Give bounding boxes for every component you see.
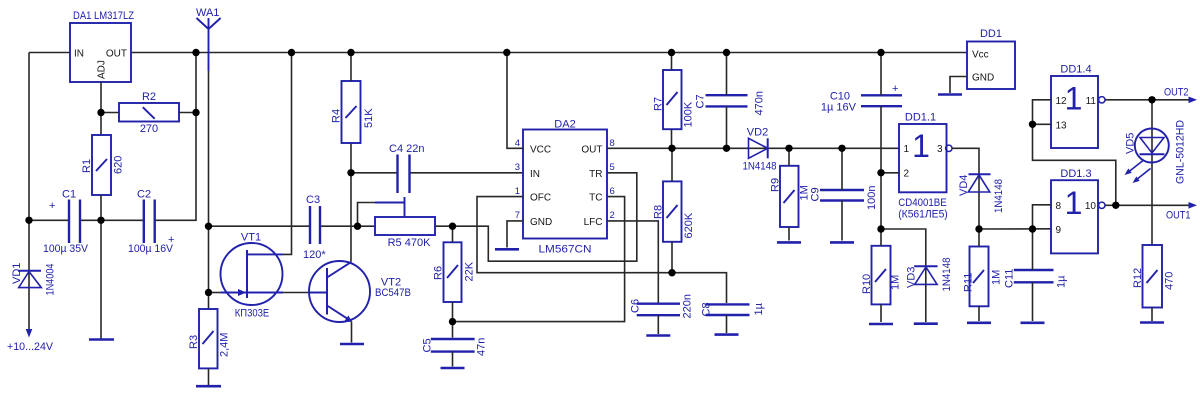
svg-text:1M: 1M [890, 275, 902, 290]
junction (452.5,321.6) [449, 318, 456, 325]
wire R3 bottom [208, 368, 210, 385]
svg-text:DA2: DA2 [554, 119, 575, 131]
node OUT1 arrow [1189, 202, 1198, 209]
regulator DA1 LM317LZ [70, 10, 134, 82]
svg-text:OUT: OUT [106, 49, 127, 60]
transistor VT1 KP303E jfet [221, 232, 284, 320]
svg-text:620: 620 [113, 156, 125, 174]
svg-text:51K: 51K [363, 108, 375, 128]
junction (979,229) [975, 225, 982, 232]
svg-text:BC547В: BC547В [375, 287, 411, 299]
led VD5 GNL-5012HD [1125, 120, 1187, 184]
wire C9 leads [841, 148, 843, 240]
svg-text:100K: 100K [683, 101, 695, 127]
wire C11 leads [1032, 229, 1034, 321]
wire top supply rail [131, 52, 967, 54]
wire DA2 OFC path [477, 197, 727, 303]
capacitor C1 100u 35V [43, 189, 89, 256]
svg-text:C6: C6 [630, 299, 642, 313]
wire DD1.4 out OUT2 [1105, 99, 1195, 101]
svg-text:TC: TC [589, 193, 602, 204]
svg-text:C9: C9 [810, 187, 822, 201]
wire C3 row y=226 [209, 225, 376, 227]
wire R7 leads [671, 53, 673, 149]
svg-text:13: 13 [1056, 121, 1068, 132]
ground under DA2 GND [495, 248, 519, 251]
svg-text:C7: C7 [695, 94, 707, 108]
resistor R8 620K [653, 181, 696, 241]
wire C6 bottom [657, 315, 659, 334]
svg-text:R6: R6 [433, 266, 445, 280]
wire C1 C2 row y=220 [29, 219, 144, 221]
svg-text:270: 270 [140, 123, 158, 135]
svg-text:R11: R11 [963, 273, 975, 292]
wire DA1 IN lead [29, 52, 70, 54]
wire VT2 emitter to ground [351, 322, 353, 343]
junction (1115.8,205.3) [1112, 202, 1119, 209]
junction (506.8,52.5) [503, 49, 510, 56]
junction (196,52.5) [192, 49, 199, 56]
capacitor C8 1u [701, 302, 766, 316]
svg-text:1µ: 1µ [753, 302, 765, 315]
wire R6 top stub [452, 226, 454, 242]
svg-text:R3: R3 [188, 335, 200, 349]
svg-text:R4: R4 [331, 109, 343, 123]
diode VD4 1N4148 [958, 174, 1005, 213]
wire R8 leads [671, 148, 673, 272]
svg-text:470n: 470n [754, 91, 766, 115]
svg-text:OUT2: OUT2 [1164, 87, 1189, 99]
resistor R7 100K [653, 70, 695, 129]
svg-text:OUT: OUT [581, 144, 602, 155]
svg-text:R7: R7 [653, 97, 665, 111]
svg-text:1M: 1M [991, 270, 1003, 285]
wire R12 bottom [1151, 308, 1153, 322]
svg-text:3: 3 [937, 144, 943, 155]
svg-text:C5: C5 [422, 338, 434, 352]
resistor R3 2,4M [188, 309, 231, 368]
junction (29,220.3) [25, 217, 32, 224]
junction (208.5,226.2) [205, 223, 212, 230]
svg-text:C2: C2 [137, 189, 151, 201]
wire antenna drop x=208.5 [208, 71, 210, 309]
svg-text:R5 470K: R5 470K [388, 237, 431, 249]
capacitor C10 1u 16V [821, 83, 902, 114]
svg-text:1µ: 1µ [1056, 275, 1068, 288]
svg-text:1: 1 [1065, 81, 1083, 117]
svg-text:+: + [49, 200, 55, 212]
svg-text:12: 12 [1056, 96, 1068, 107]
wire DD1.3 pin8 loop [1033, 205, 1052, 229]
svg-text:11: 11 [1086, 96, 1097, 107]
svg-text:WA1: WA1 [196, 7, 219, 19]
ground under VT2 [340, 343, 364, 346]
junction (351,172.8) [347, 169, 354, 176]
svg-text:120*: 120* [303, 249, 326, 261]
svg-text:4: 4 [515, 138, 520, 149]
svg-text:C3: C3 [306, 194, 320, 206]
wire VT1 source to VT2 base [283, 292, 309, 294]
svg-text:8: 8 [1056, 201, 1062, 212]
wire DA2 LFC to C6 [607, 221, 658, 303]
wire R11 leads [978, 229, 980, 321]
wire DD1 GND lead [950, 77, 967, 94]
svg-text:VD1: VD1 [11, 263, 23, 284]
wire R9 leads [788, 148, 790, 240]
capacitor C5 47n [422, 338, 488, 356]
svg-text:6: 6 [610, 186, 615, 197]
svg-text:DD1.4: DD1.4 [1060, 64, 1091, 76]
junction (1032.5,124.3) [1029, 121, 1036, 128]
gate DD1.4 [1051, 64, 1105, 149]
wire DA2 VCC lead to rail [507, 53, 523, 149]
svg-text:R9: R9 [770, 178, 782, 192]
svg-text:5: 5 [610, 162, 615, 173]
svg-text:DA1 LM317LZ: DA1 LM317LZ [73, 10, 134, 22]
ground under DD1 [938, 93, 962, 96]
svg-text:1: 1 [912, 128, 930, 164]
svg-text:1: 1 [515, 186, 520, 197]
svg-text:IN: IN [530, 169, 540, 180]
junction (671.5,52.5) [668, 49, 675, 56]
svg-text:10: 10 [1085, 201, 1097, 212]
gate DD1.3 [1051, 168, 1105, 253]
junction (672,148.3) [668, 145, 675, 152]
wire input riser x=29 [28, 53, 30, 334]
resistor R5 470K trimmer [375, 197, 435, 249]
wire R4 top to rail [350, 53, 352, 82]
wire LED branch x=1152 [1151, 100, 1153, 245]
svg-text:C11: C11 [1004, 269, 1016, 288]
svg-text:(К561ЛЕ5): (К561ЛЕ5) [898, 209, 948, 221]
ic DD1 power box [967, 28, 1015, 89]
wire DD1.4 pin13 lead [1033, 123, 1052, 125]
svg-text:R2: R2 [142, 91, 156, 103]
svg-text:IN: IN [74, 49, 84, 60]
svg-text:C4 22n: C4 22n [389, 143, 424, 155]
svg-text:1: 1 [904, 144, 910, 155]
junction (881,172.8) [877, 169, 884, 176]
capacitor C2 100u 16V [128, 189, 174, 256]
resistor R6 22K [433, 242, 476, 302]
ground under C6 [646, 334, 670, 337]
junction (881,52.5) [877, 49, 884, 56]
svg-text:GND: GND [530, 217, 552, 228]
junction (101,220.3) [97, 217, 104, 224]
wire C5 bottom [452, 352, 454, 367]
junction (881,229) [877, 225, 884, 232]
svg-text:R8: R8 [653, 205, 665, 219]
node input arrow [26, 329, 33, 338]
ground under R10 [869, 323, 893, 326]
capacitor C11 1u [1004, 269, 1068, 288]
svg-text:R1: R1 [81, 159, 93, 173]
resistor R4 51K [331, 81, 376, 143]
junction (1152,99.8) [1148, 96, 1155, 103]
wire TC return y=321.6 [453, 197, 625, 322]
diode VD3 1N4148 [906, 258, 954, 292]
diode VD1 1N4004 [11, 263, 57, 296]
wire ADJ drop x=101 [100, 82, 102, 135]
junction (291.5,52.5) [288, 49, 295, 56]
svg-text:C8: C8 [701, 302, 713, 316]
svg-text:VD4: VD4 [958, 175, 970, 196]
wire DD1.1 pin2 lead [881, 172, 899, 174]
junction (672,272.7) [668, 269, 675, 276]
svg-text:LFC: LFC [584, 217, 603, 228]
junction (842,148.3) [838, 145, 845, 152]
ground under R12 [1140, 321, 1164, 324]
ground under R9 [777, 241, 801, 244]
svg-text:OUT1: OUT1 [1166, 210, 1191, 222]
wire C10 leads [880, 53, 882, 173]
ground under R3 [196, 385, 221, 388]
svg-text:DD1: DD1 [980, 28, 1002, 40]
svg-text:КП303Е: КП303Е [235, 308, 270, 320]
junction (351,52.5) [347, 49, 354, 56]
resistor R1 620 [81, 135, 125, 195]
wire VT2 collector riser x=351 [350, 143, 352, 262]
svg-text:100n: 100n [866, 186, 878, 210]
wire DD1.1 out to VD4 [952, 148, 979, 229]
capacitor C3 120* [303, 194, 326, 261]
junction (452.5,226.2) [449, 223, 456, 230]
svg-text:R10: R10 [861, 274, 873, 294]
diode VD2 1N4148 [743, 127, 777, 173]
svg-text:47n: 47n [476, 338, 488, 356]
wire R1 bottom to ground [100, 195, 102, 339]
capacitor C9 100n [810, 186, 879, 210]
wire DD1.3 out OUT1 [1105, 204, 1195, 206]
svg-text:VD2: VD2 [747, 127, 768, 139]
transistor VT2 BC547B [309, 261, 411, 322]
svg-text:GND: GND [972, 73, 994, 84]
svg-text:1µ 16V: 1µ 16V [821, 102, 857, 114]
wire DA2 GND lead [507, 221, 523, 248]
svg-text:2: 2 [610, 210, 615, 221]
svg-text:Vcc: Vcc [972, 50, 989, 61]
svg-text:22K: 22K [464, 261, 476, 281]
capacitor C4 22n [389, 143, 424, 193]
wire R5 right lead to TR [435, 173, 637, 261]
svg-text:OFC: OFC [530, 193, 551, 204]
capacitor C6 220n [630, 294, 694, 318]
wire pin2 riser to R10 node [880, 173, 882, 229]
svg-text:1: 1 [1065, 185, 1083, 221]
ground under R1 [89, 338, 114, 341]
gate DD1.1 [898, 112, 952, 221]
wire VT1 gate lead [209, 292, 221, 294]
junction (1032.5,229) [1029, 225, 1036, 232]
svg-text:TR: TR [589, 169, 602, 180]
resistor R2 270 [119, 91, 179, 135]
wire pin2 net to VD3 [881, 229, 926, 322]
svg-text:620K: 620K [683, 212, 695, 238]
svg-text:7: 7 [515, 210, 520, 221]
ground under C5 [441, 367, 465, 370]
capacitor C7 470n [695, 91, 766, 115]
wire VT1 drain riser x=291.5 [283, 53, 292, 255]
wire R6 bottom stub [452, 302, 454, 338]
wire riser x=196 rail to C2 [155, 53, 196, 221]
svg-text:CD4001BE: CD4001BE [898, 197, 947, 209]
svg-text:100µ 35V: 100µ 35V [43, 243, 89, 255]
ground under C9 [830, 241, 854, 244]
junction (357.5,226.2) [354, 223, 361, 230]
svg-text:3: 3 [515, 162, 520, 173]
svg-text:1N4148: 1N4148 [743, 161, 777, 173]
resistor R11 1M [963, 247, 1003, 307]
svg-text:VD3: VD3 [906, 267, 918, 288]
svg-text:GNL-5012HD: GNL-5012HD [1175, 120, 1187, 184]
junction (196,112.5) [192, 109, 199, 116]
wire C4 row y=173 [351, 172, 523, 174]
resistor R12 470 [1132, 245, 1176, 308]
svg-text:DD1.3: DD1.3 [1060, 168, 1091, 180]
wire DA2 OUT row y=148.3 [607, 147, 899, 149]
ground under C11 [1021, 321, 1045, 324]
ground under C8 [715, 333, 739, 336]
junction (726.5,52.5) [723, 49, 730, 56]
wire DD1.4 input loop [1033, 100, 1116, 206]
svg-text:1N4148: 1N4148 [941, 258, 953, 292]
wire input net y=229 [979, 228, 1051, 230]
svg-text:VT1: VT1 [241, 232, 261, 244]
junction (208.5,292.5) [205, 289, 212, 296]
wire C7 leads [726, 53, 728, 149]
svg-text:+10...24V: +10...24V [7, 341, 54, 353]
svg-text:8: 8 [610, 138, 615, 149]
svg-text:2: 2 [904, 169, 910, 180]
resistor R10 1M [861, 246, 902, 305]
svg-text:1N4004: 1N4004 [45, 264, 57, 296]
svg-text:+: + [892, 83, 898, 95]
ground under VD3 [914, 322, 938, 325]
wire R5 tap link [358, 203, 376, 227]
svg-text:100µ 16V: 100µ 16V [128, 243, 174, 255]
svg-text:2,4М: 2,4М [219, 333, 231, 357]
svg-text:ADJ: ADJ [97, 60, 108, 79]
wire R2 right lead [179, 112, 196, 114]
svg-text:C1: C1 [62, 189, 76, 201]
junction (101,112.5) [97, 109, 104, 116]
wire R2 left lead [101, 112, 119, 114]
wire C8 bottom [726, 315, 728, 333]
ic DA2 LM567CN [515, 119, 615, 256]
svg-text:R12: R12 [1132, 268, 1144, 288]
junction (789,148.3) [785, 145, 792, 152]
junction (726.5,148.3) [723, 145, 730, 152]
svg-text:VCC: VCC [530, 144, 551, 155]
svg-text:1N4148: 1N4148 [993, 179, 1005, 213]
svg-text:DD1.1: DD1.1 [905, 112, 936, 124]
svg-text:220n: 220n [682, 294, 694, 318]
antenna WA1 [196, 7, 221, 71]
svg-text:VD5: VD5 [1125, 133, 1137, 154]
node OUT2 arrow [1189, 97, 1198, 104]
wire R10 leads [880, 229, 882, 322]
resistor R9 1M [770, 166, 811, 227]
svg-text:9: 9 [1056, 225, 1062, 236]
ground under R11 [967, 321, 991, 324]
svg-text:470: 470 [1164, 272, 1176, 290]
svg-text:LM567CN: LM567CN [539, 244, 592, 256]
